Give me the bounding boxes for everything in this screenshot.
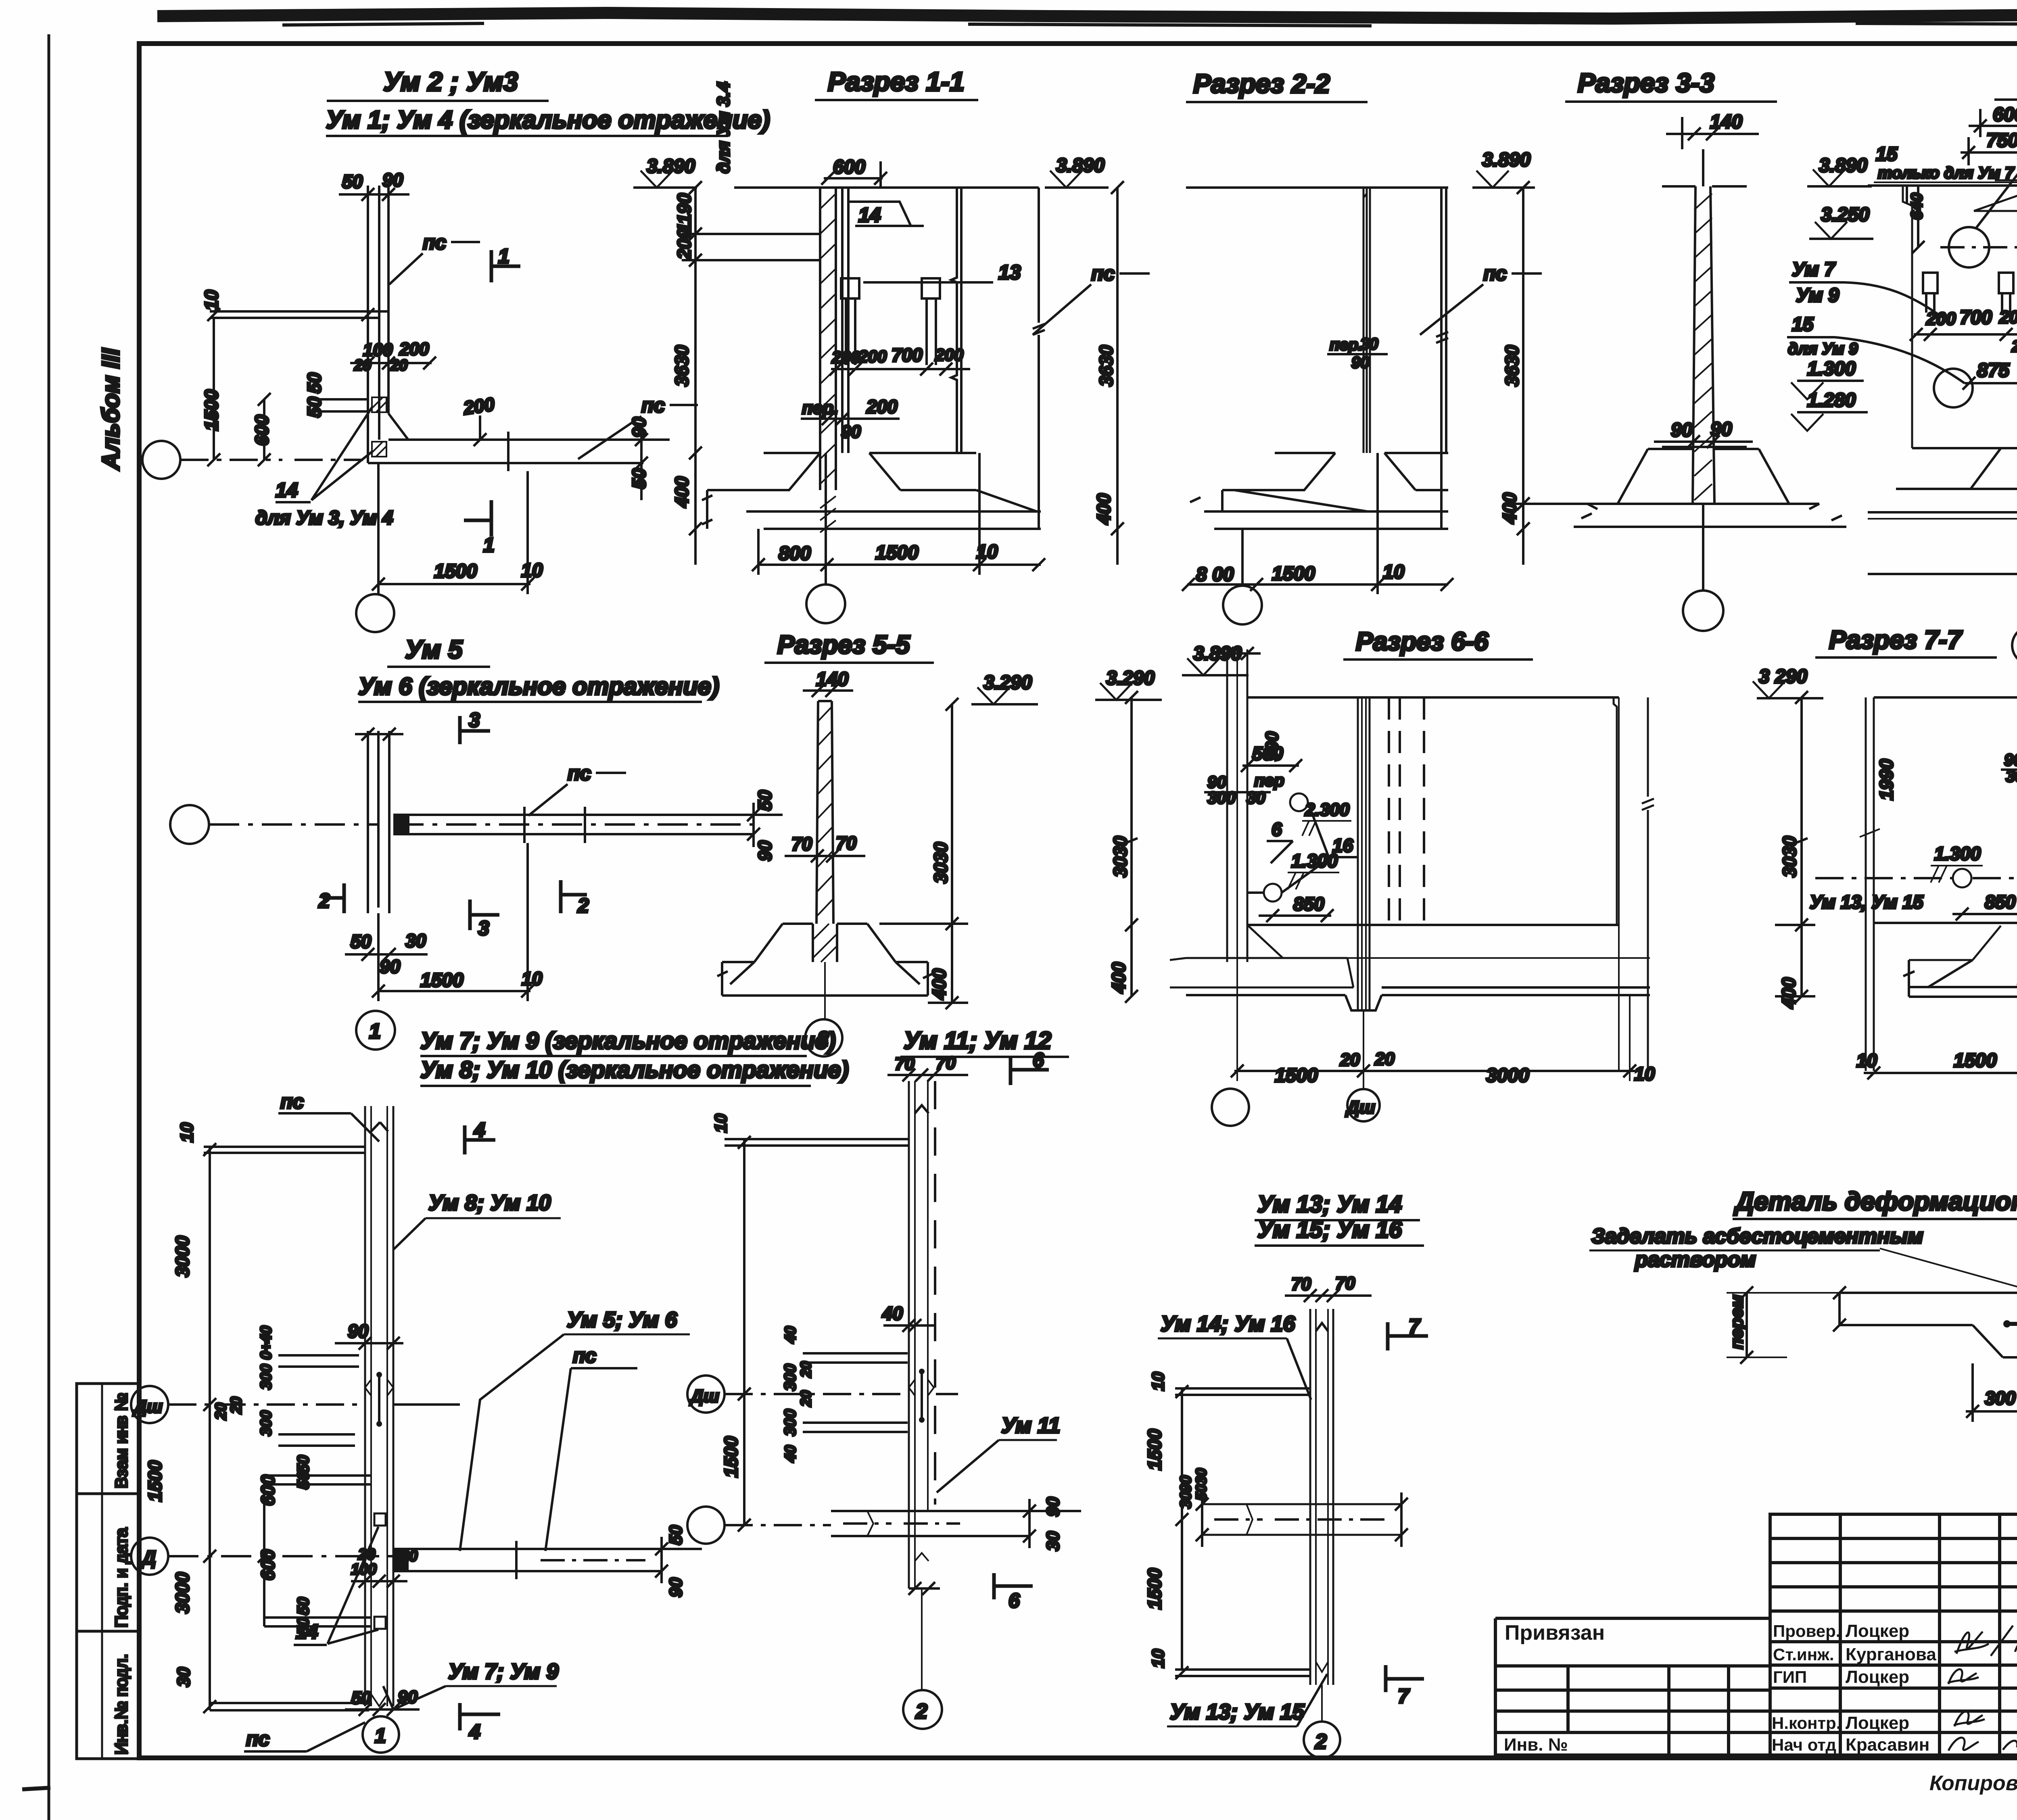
svg-text:3000: 3000 xyxy=(172,1572,193,1613)
svg-text:200: 200 xyxy=(1926,309,1956,329)
svg-text:Копировал.: Копировал. xyxy=(1929,1772,2017,1795)
svg-text:пс: пс xyxy=(573,1344,597,1367)
svg-text:50: 50 xyxy=(351,931,372,952)
svg-text:Красавин: Красавин xyxy=(1846,1735,1929,1755)
svg-text:30: 30 xyxy=(405,930,426,951)
svg-text:Лоцкер: Лоцкер xyxy=(1846,1667,1909,1687)
svg-text:10: 10 xyxy=(521,560,543,581)
svg-text:1500: 1500 xyxy=(1954,1050,1997,1071)
svg-text:Разрез 2-2: Разрез 2-2 xyxy=(1193,69,1330,98)
svg-text:1: 1 xyxy=(369,1020,381,1043)
svg-text:1.300: 1.300 xyxy=(1807,358,1856,380)
svg-text:90: 90 xyxy=(382,169,403,190)
svg-text:Инв. №: Инв. № xyxy=(1504,1735,1568,1755)
svg-text:Курганова: Курганова xyxy=(1846,1645,1936,1664)
svg-text:1: 1 xyxy=(375,1724,386,1747)
svg-text:Ум 2 ; Ум3: Ум 2 ; Ум3 xyxy=(383,67,518,96)
svg-text:50: 50 xyxy=(754,790,775,811)
svg-text:для Ум 9: для Ум 9 xyxy=(1788,340,1858,358)
svg-text:300 0÷40: 300 0÷40 xyxy=(258,1326,275,1390)
svg-text:1500: 1500 xyxy=(420,970,464,991)
svg-text:14: 14 xyxy=(276,479,298,501)
svg-text:Лоцкер: Лоцкер xyxy=(1846,1621,1909,1641)
svg-text:50: 50 xyxy=(294,1455,312,1474)
svg-text:1500: 1500 xyxy=(1144,1568,1165,1609)
svg-text:750: 750 xyxy=(1986,130,2017,151)
svg-text:400: 400 xyxy=(1108,962,1129,993)
svg-text:3.250: 3.250 xyxy=(1821,204,1869,225)
svg-text:200: 200 xyxy=(935,345,963,364)
svg-text:90: 90 xyxy=(754,840,775,861)
svg-text:1500: 1500 xyxy=(1275,1065,1318,1086)
svg-text:50: 50 xyxy=(304,372,325,393)
svg-text:Ум 8; Ум 10: Ум 8; Ум 10 xyxy=(428,1191,551,1215)
svg-text:Привязан: Привязан xyxy=(1505,1621,1605,1645)
svg-text:3630: 3630 xyxy=(671,345,692,386)
svg-text:2: 2 xyxy=(318,889,330,912)
svg-text:7: 7 xyxy=(1398,1685,1410,1707)
svg-text:1500: 1500 xyxy=(1144,1429,1165,1470)
svg-text:пс: пс xyxy=(246,1728,270,1750)
svg-text:200: 200 xyxy=(462,393,496,418)
svg-text:Ст.инж.: Ст.инж. xyxy=(1773,1645,1834,1664)
svg-text:Разрез 1-1: Разрез 1-1 xyxy=(828,67,965,96)
svg-text:400: 400 xyxy=(1093,493,1114,525)
svg-text:30: 30 xyxy=(1360,335,1378,353)
svg-text:40: 40 xyxy=(882,1303,903,1324)
svg-text:Ум 13; Ум 15: Ум 13; Ум 15 xyxy=(1170,1700,1305,1724)
svg-text:600: 600 xyxy=(1993,104,2017,125)
svg-text:Ум 6 (зеркальное отражение): Ум 6 (зеркальное отражение) xyxy=(358,673,719,700)
svg-text:40: 40 xyxy=(782,1326,799,1344)
svg-text:1500: 1500 xyxy=(875,542,919,564)
svg-text:90: 90 xyxy=(1671,420,1693,441)
svg-text:Ум 1; Ум 4 (зеркальное отраж: Ум 1; Ум 4 (зеркальное отражение) xyxy=(326,106,770,134)
svg-text:30: 30 xyxy=(1178,1492,1194,1509)
svg-text:1.300: 1.300 xyxy=(1934,843,1981,864)
svg-text:70: 70 xyxy=(791,833,812,854)
svg-text:Разрез 6-6: Разрез 6-6 xyxy=(1356,627,1489,656)
svg-text:850: 850 xyxy=(1293,893,1324,914)
svg-text:3000: 3000 xyxy=(172,1236,193,1277)
svg-text:10: 10 xyxy=(201,290,222,311)
svg-text:Ум 14; Ум 16: Ум 14; Ум 16 xyxy=(1161,1312,1295,1336)
svg-text:1500: 1500 xyxy=(434,561,477,582)
svg-text:пс: пс xyxy=(568,762,591,785)
svg-text:3: 3 xyxy=(478,917,489,939)
svg-text:только для Ум 7: только для Ум 7 xyxy=(1878,164,2015,182)
svg-text:пс: пс xyxy=(423,231,447,254)
svg-text:пер: пер xyxy=(1254,771,1284,790)
svg-text:14: 14 xyxy=(858,204,881,226)
svg-text:Ум 13; Ум 14: Ум 13; Ум 14 xyxy=(1257,1191,1402,1217)
svg-text:Дш: Дш xyxy=(689,1386,719,1406)
svg-text:Н.контр.: Н.контр. xyxy=(1772,1714,1841,1732)
svg-text:2: 2 xyxy=(577,894,589,917)
svg-text:10: 10 xyxy=(1383,561,1405,583)
svg-text:пс: пс xyxy=(1483,262,1507,285)
svg-text:4: 4 xyxy=(474,1119,485,1141)
svg-text:2: 2 xyxy=(915,1700,927,1723)
svg-text:10: 10 xyxy=(1148,1649,1167,1668)
svg-text:1500: 1500 xyxy=(144,1460,165,1502)
svg-text:90: 90 xyxy=(628,417,649,438)
svg-text:8 00: 8 00 xyxy=(1196,564,1234,585)
svg-text:200: 200 xyxy=(866,396,898,417)
svg-text:30: 30 xyxy=(174,1667,194,1687)
svg-text:перем: перем xyxy=(1727,1295,1747,1349)
svg-text:50: 50 xyxy=(294,1597,312,1615)
svg-text:пер.: пер. xyxy=(1330,336,1363,354)
svg-text:20: 20 xyxy=(798,1361,814,1378)
svg-text:800: 800 xyxy=(779,543,811,564)
svg-text:10: 10 xyxy=(1634,1063,1655,1084)
svg-text:50: 50 xyxy=(628,468,649,489)
svg-text:3630: 3630 xyxy=(1501,345,1522,386)
svg-text:90: 90 xyxy=(398,1687,418,1707)
svg-text:200: 200 xyxy=(399,339,429,359)
svg-text:30: 30 xyxy=(1193,1468,1209,1484)
svg-text:10: 10 xyxy=(522,968,543,989)
svg-text:400: 400 xyxy=(671,476,692,508)
svg-text:1990: 1990 xyxy=(1876,759,1897,800)
svg-text:200: 200 xyxy=(858,347,887,366)
svg-text:20: 20 xyxy=(1340,1050,1360,1070)
svg-text:Ум 9: Ум 9 xyxy=(1796,285,1839,306)
svg-text:пс: пс xyxy=(641,394,665,417)
svg-text:Д: Д xyxy=(140,1547,156,1569)
svg-text:90: 90 xyxy=(380,956,401,977)
svg-text:200: 200 xyxy=(2011,338,2017,355)
svg-text:50: 50 xyxy=(666,1525,686,1545)
svg-text:Ум 5: Ум 5 xyxy=(405,635,463,664)
svg-text:700: 700 xyxy=(1960,307,1992,328)
svg-text:Разрез 5-5: Разрез 5-5 xyxy=(777,630,910,659)
svg-text:140: 140 xyxy=(1710,111,1742,133)
svg-text:Провер.: Провер. xyxy=(1773,1622,1840,1641)
svg-text:50: 50 xyxy=(294,1471,312,1490)
svg-text:90: 90 xyxy=(666,1578,686,1597)
svg-text:600: 600 xyxy=(251,415,272,446)
svg-text:500: 500 xyxy=(1252,743,1283,764)
svg-text:Дш: Дш xyxy=(1345,1098,1375,1117)
svg-text:Инв.№ подл.: Инв.№ подл. xyxy=(112,1654,131,1755)
svg-text:Разрез 7-7: Разрез 7-7 xyxy=(1829,625,1963,654)
svg-text:700: 700 xyxy=(892,344,923,365)
svg-text:3.890: 3.890 xyxy=(1482,149,1530,171)
svg-text:14: 14 xyxy=(296,1620,318,1643)
svg-text:6: 6 xyxy=(1272,819,1282,840)
svg-text:1500: 1500 xyxy=(720,1436,741,1478)
svg-text:1: 1 xyxy=(483,534,495,556)
svg-text:200: 200 xyxy=(831,348,860,367)
svg-text:Лоцкер: Лоцкер xyxy=(1846,1713,1909,1733)
svg-text:Ум 7; Ум 9: Ум 7; Ум 9 xyxy=(448,1659,558,1684)
svg-text:1500: 1500 xyxy=(201,389,222,431)
svg-text:Ум 7: Ум 7 xyxy=(1792,259,1836,280)
svg-text:300: 300 xyxy=(1985,1388,2016,1409)
svg-text:10: 10 xyxy=(711,1114,730,1133)
svg-text:пс: пс xyxy=(1091,262,1115,285)
svg-text:Ум 13, Ум 15: Ум 13, Ум 15 xyxy=(1810,891,1924,912)
svg-text:100: 100 xyxy=(351,1561,376,1578)
svg-text:90: 90 xyxy=(1043,1497,1063,1517)
svg-text:300: 300 xyxy=(781,1409,799,1436)
svg-text:1: 1 xyxy=(498,245,509,267)
svg-text:Заделать асбестоцементным: Заделать асбестоцементным xyxy=(1591,1225,1923,1248)
svg-text:2: 2 xyxy=(1315,1730,1327,1753)
svg-text:Ум 11: Ум 11 xyxy=(1001,1413,1060,1438)
svg-text:20: 20 xyxy=(390,357,407,374)
svg-text:70: 70 xyxy=(1291,1274,1311,1294)
svg-text:раствором: раствором xyxy=(1634,1248,1756,1271)
svg-text:90: 90 xyxy=(1710,419,1732,440)
svg-text:20: 20 xyxy=(1374,1049,1395,1069)
svg-text:4: 4 xyxy=(469,1720,480,1743)
svg-text:3030: 3030 xyxy=(930,842,951,883)
svg-text:для Ум 3, Ум 4: для Ум 3, Ум 4 xyxy=(255,507,393,529)
svg-text:16: 16 xyxy=(1332,835,1353,856)
svg-text:Ум 15; Ум 16: Ум 15; Ум 16 xyxy=(1257,1217,1402,1243)
svg-text:Ум 8; Ум 10 (зеркальное отра: Ум 8; Ум 10 (зеркальное отражение) xyxy=(420,1057,849,1083)
svg-text:Нач отд: Нач отд xyxy=(1772,1735,1836,1754)
svg-text:2: 2 xyxy=(817,1027,829,1051)
svg-text:90: 90 xyxy=(1178,1476,1194,1492)
svg-text:20: 20 xyxy=(400,1548,418,1565)
svg-text:Разрез 3-3: Разрез 3-3 xyxy=(1578,68,1714,98)
svg-text:90: 90 xyxy=(841,422,861,442)
svg-text:3: 3 xyxy=(469,709,480,731)
svg-text:600: 600 xyxy=(833,157,865,178)
svg-text:пс: пс xyxy=(280,1090,304,1113)
svg-text:10: 10 xyxy=(976,541,998,563)
svg-text:3000: 3000 xyxy=(1486,1065,1529,1086)
svg-text:200: 200 xyxy=(1999,307,2017,327)
svg-text:Подп. и дата: Подп. и дата xyxy=(112,1528,131,1628)
svg-text:13: 13 xyxy=(998,261,1021,284)
svg-text:875: 875 xyxy=(1977,360,2010,381)
svg-text:Дш: Дш xyxy=(132,1397,163,1417)
svg-text:6: 6 xyxy=(1033,1049,1044,1071)
svg-text:1190: 1190 xyxy=(674,193,695,233)
svg-text:Взам инв №: Взам инв № xyxy=(112,1393,131,1488)
svg-text:Ум 7; Ум 9 (зеркальное отраж: Ум 7; Ум 9 (зеркальное отражение) xyxy=(420,1028,836,1054)
svg-text:50: 50 xyxy=(342,171,363,192)
svg-text:40: 40 xyxy=(782,1445,799,1463)
svg-text:90: 90 xyxy=(1351,354,1370,372)
svg-text:ГИП: ГИП xyxy=(1773,1668,1807,1686)
svg-text:10: 10 xyxy=(177,1123,197,1142)
svg-text:10: 10 xyxy=(1148,1372,1167,1391)
svg-text:400: 400 xyxy=(1778,977,1799,1009)
svg-text:1500: 1500 xyxy=(1272,563,1315,584)
svg-text:3.890: 3.890 xyxy=(1819,155,1867,176)
svg-text:300: 300 xyxy=(258,1411,275,1436)
svg-text:20: 20 xyxy=(354,357,371,374)
svg-text:850: 850 xyxy=(1985,891,2016,912)
svg-text:1.280: 1.280 xyxy=(1807,390,1856,411)
svg-text:30: 30 xyxy=(1043,1531,1063,1551)
svg-text:15: 15 xyxy=(1876,144,1898,165)
svg-text:7: 7 xyxy=(1409,1315,1421,1338)
svg-text:для Ум 3.4: для Ум 3.4 xyxy=(714,82,733,173)
svg-text:Ум 5; Ум 6: Ум 5; Ум 6 xyxy=(567,1308,677,1332)
svg-text:Альбом III: Альбом III xyxy=(97,348,124,471)
svg-text:15: 15 xyxy=(1792,314,1814,335)
svg-text:10: 10 xyxy=(1856,1050,1877,1071)
svg-text:300: 300 xyxy=(781,1364,799,1391)
svg-text:6: 6 xyxy=(1008,1589,1020,1612)
svg-text:3630: 3630 xyxy=(1096,345,1117,386)
svg-text:400: 400 xyxy=(1499,493,1520,524)
svg-text:Деталь деформационного шва: Деталь деформационного шва в стенах xyxy=(1733,1187,2017,1216)
svg-text:600: 600 xyxy=(257,1475,278,1506)
svg-text:90: 90 xyxy=(348,1321,369,1342)
svg-text:Ум 11; Ум 12: Ум 11; Ум 12 xyxy=(904,1027,1051,1054)
